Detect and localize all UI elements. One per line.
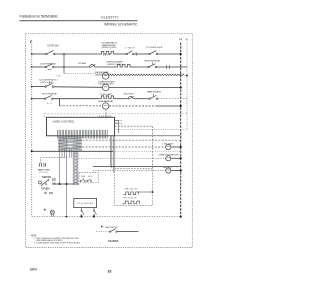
- pins block top edge: [100, 116, 111, 118]
- header rule: [20, 20, 138, 21]
- svg-text:N.O.: N.O.: [47, 103, 53, 105]
- wire H0 solid: [115, 135, 181, 137]
- junction rung3-N: [186, 75, 188, 77]
- stub turn-down vertical: [118, 120, 120, 133]
- label broil element 2 lines: [106, 62, 124, 66]
- junction M2-L1: [180, 146, 182, 148]
- motor M3 circle: [166, 156, 171, 161]
- svg-text:18: 18: [107, 270, 111, 274]
- harness right verticals: [110, 136, 115, 172]
- wire rung3 dotted feed: [64, 73, 102, 75]
- label main power plug 2 lines: [38, 169, 50, 174]
- svg-text:WIRING SCHEMATIC: WIRING SCHEMATIC: [104, 23, 138, 27]
- legend star denotes: [101, 226, 119, 229]
- svg-text:DENOTES SW: DENOTES SW: [105, 227, 119, 229]
- junction rung4-L1: [180, 86, 182, 88]
- junction M4-L1: [180, 169, 182, 171]
- motor M4 circle: [166, 168, 171, 173]
- resistor BR: [122, 201, 139, 204]
- switch S3: [149, 51, 158, 55]
- wire rung5 left: [32, 98, 45, 100]
- wire WE row: [138, 191, 152, 193]
- junction K1b-rung: [93, 216, 95, 218]
- junction H3-left bus: [31, 150, 33, 152]
- svg-text:OVEN CONTROL: OVEN CONTROL: [53, 119, 76, 123]
- star mark: [44, 209, 46, 211]
- thermal switch S9 (hump): [127, 96, 134, 99]
- wire rung5 mid3: [134, 98, 149, 100]
- svg-text:(2600W @ 240V): (2600W @ 240V): [102, 47, 117, 49]
- relay contact K1a: [81, 208, 84, 217]
- svg-text:1M: 1M: [56, 76, 60, 78]
- label TL door relay 2 lines: [39, 79, 58, 84]
- L1 supply bus: [180, 43, 182, 218]
- svg-text:PANEL SW LATCH: PANEL SW LATCH: [147, 90, 161, 93]
- svg-text:LT DOUBLE SW B: LT DOUBLE SW B: [146, 47, 163, 49]
- harness hatch narrow: [73, 152, 79, 185]
- svg-text:GLES977C: GLES977C: [101, 15, 120, 19]
- svg-text:FAN MTR: FAN MTR: [163, 166, 172, 169]
- wire rung4 right: [109, 87, 181, 89]
- legend sample switch: [96, 229, 139, 233]
- element box dashed: [115, 168, 153, 205]
- wire dotted stub y129.5 to N: [115, 129, 188, 131]
- connector comb block bottom: [58, 130, 108, 139]
- svg-text:TOP VIEW: TOP VIEW: [41, 187, 51, 190]
- junction y184 a: [59, 183, 61, 185]
- harness hatch wide: [58, 136, 82, 150]
- switch S4: [45, 64, 54, 70]
- svg-text:Publications No: 5995418643: Publications No: 5995418643: [20, 15, 58, 19]
- console boundary dashed line: [45, 114, 187, 118]
- wire plug dashed feed: [41, 158, 68, 163]
- plug bars right of switch: [53, 178, 55, 185]
- svg-text:L1: L1: [179, 37, 183, 41]
- wire H5 solid: [93, 166, 181, 168]
- wire rung y184: [53, 183, 79, 185]
- left return bus: [31, 42, 33, 217]
- wire rung6 dashed left: [60, 105, 103, 107]
- resistor WE: [123, 192, 138, 195]
- svg-text:DOOR SW: DOOR SW: [48, 44, 60, 47]
- wire M2 to L1: [171, 146, 181, 148]
- notes block: [31, 235, 81, 244]
- junction harness-rung: [66, 216, 68, 218]
- plug P3 contacts: [40, 163, 46, 167]
- wire rung1 mid2: [114, 53, 127, 55]
- resistor broil element: [115, 64, 130, 67]
- wire rung2 mid3: [130, 66, 148, 68]
- svg-text:MOLD SW RELAY: MOLD SW RELAY: [42, 93, 58, 96]
- junction y184 b: [66, 183, 68, 185]
- N neutral bus: [186, 43, 188, 130]
- switch S1: [46, 51, 55, 55]
- heater sawtooth wire to N: [109, 74, 184, 76]
- small marks row: [44, 192, 53, 194]
- svg-text:WE 800 W: WE 800 W: [125, 189, 137, 191]
- junction M3-L1: [180, 157, 182, 159]
- wire H3 solid from left bus: [32, 150, 113, 152]
- svg-text:SURF SW: SURF SW: [42, 175, 52, 179]
- wire dashed stub y126: [115, 125, 153, 127]
- svg-text:LT SW B: LT SW B: [124, 47, 135, 49]
- label broil element top 2 lines: [95, 72, 110, 76]
- junction WE-box edge: [152, 191, 154, 193]
- switch S7 with tick: [45, 82, 54, 88]
- svg-text:BAKE: BAKE: [103, 54, 111, 57]
- wire H2 dashed: [72, 146, 165, 148]
- left bus top hook: [30, 40, 32, 43]
- svg-text:BR 2500 W: BR 2500 W: [123, 198, 136, 200]
- wire rung1 mid: [55, 53, 99, 55]
- wire rung5 right dashed to N: [158, 97, 187, 99]
- junction rung1-L1: [180, 53, 182, 55]
- wire H4 dotted: [79, 157, 166, 159]
- wire H6 dotted: [93, 170, 165, 172]
- pin stub P2: [115, 123, 123, 125]
- wire rung4 left: [32, 86, 45, 88]
- wire rung4 mid: [54, 86, 103, 89]
- switch S2: [126, 51, 134, 55]
- wire bottom dotted rung: [32, 216, 181, 218]
- relay box dashed SW800: [79, 173, 99, 183]
- junction K1a-rung: [81, 216, 83, 218]
- svg-text:DOOR SW: DOOR SW: [78, 63, 87, 65]
- wire M4 to L1: [171, 170, 181, 172]
- svg-text:PLUG: PLUG: [40, 172, 48, 174]
- pin stub P1: [115, 120, 123, 122]
- svg-text:N: N: [186, 37, 188, 41]
- drop from motor M1 to control: [105, 109, 107, 117]
- wire rung2 right with connector ticks: [157, 65, 187, 68]
- svg-text:16/04: 16/04: [30, 268, 37, 272]
- label bake element 3 lines: [101, 42, 119, 49]
- wire H3 dotted right: [113, 150, 181, 152]
- switch S10 with tick: [149, 94, 158, 100]
- lamp L1a: [50, 210, 54, 216]
- wire rung1 mid3: [134, 53, 149, 55]
- thermal switch S5 (hump): [88, 64, 96, 67]
- branch vertical rung5-rung6: [59, 99, 61, 106]
- wire rung1 right: [158, 53, 181, 55]
- svg-text:SPEED SW RELAY: SPEED SW RELAY: [144, 59, 161, 62]
- wire bundle verticals: [60, 139, 72, 216]
- relay box DLB: [74, 198, 97, 207]
- junction vertical rung1-rung2: [63, 53, 65, 73]
- svg-text:2. COMPONENTS SHOWN IN OFF POS: 2. COMPONENTS SHOWN IN OFF POSITION, ALL: [34, 241, 81, 244]
- motor M1 circle: [103, 103, 109, 109]
- wire rung2 left: [32, 66, 46, 68]
- connector tick rung1: [135, 52, 137, 55]
- svg-text:ZZGZB32B: ZZGZB32B: [108, 239, 119, 243]
- wire rung5 mid2: [114, 98, 128, 100]
- wire rung6 solid right: [157, 105, 181, 107]
- element E1 circle: [102, 73, 109, 80]
- svg-text:SW - 800: SW - 800: [81, 176, 93, 178]
- wire rung2 mid: [54, 66, 88, 68]
- infinite switch S11: [39, 179, 50, 185]
- resistor oven lamp: [99, 96, 114, 99]
- resistor bake element: [99, 51, 114, 54]
- wire M3 to L1: [171, 157, 181, 159]
- wire rung2 mid2: [96, 66, 115, 68]
- vertical dashed feeder x152.5: [152, 126, 154, 168]
- wire rung1 left: [32, 53, 46, 55]
- junction left-bus dots: [31, 53, 33, 99]
- element E2 circle: [102, 84, 109, 91]
- svg-text:DLB RELAY: DLB RELAY: [77, 202, 94, 205]
- wire H1 dashed: [60, 139, 181, 141]
- wire rung6 dashed right: [109, 105, 157, 107]
- svg-text:LATCH SW: LATCH SW: [123, 92, 134, 95]
- junction L1 bottom: [180, 216, 182, 218]
- motor M2 circle: [166, 144, 171, 149]
- contacts inside SW800: [80, 179, 92, 182]
- relay contact K1b: [93, 208, 96, 217]
- wire rung5 mid: [53, 98, 99, 100]
- oven control U1 block: [47, 117, 115, 136]
- cabinet boundary frame (dashed): [26, 34, 193, 248]
- label bake element 2 lines: [98, 80, 116, 85]
- switch S6 with actuator tick: [148, 62, 157, 68]
- svg-text:DOOR SW RELAY: DOOR SW RELAY: [40, 63, 57, 66]
- junction rung6-L1: [180, 105, 182, 107]
- switch S8: [44, 95, 53, 99]
